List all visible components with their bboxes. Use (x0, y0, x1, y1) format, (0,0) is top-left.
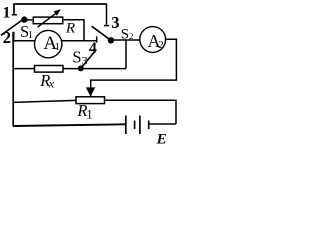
wire top bus from contact 1 to contact 3 (14, 4, 107, 15)
resistor Rx body (35, 66, 64, 73)
contact 2 bar (12, 32, 14, 42)
battery E cell plate short 1 (134, 121, 136, 130)
svg-text:1: 1 (3, 5, 11, 22)
ammeter A2 (140, 27, 166, 53)
wire slider bus from arrow to right rail (91, 79, 177, 96)
switch S3 pivot dot (78, 65, 84, 71)
wire junction down from A2 branch (125, 40, 127, 69)
switch S1 pivot dot (21, 16, 27, 22)
wire R1 row left (13, 100, 76, 102)
rheostat R body (33, 17, 62, 24)
battery E cell plate long 1 (125, 116, 127, 135)
wire battery to right rail (150, 123, 177, 125)
contact 3 tick (104, 25, 109, 27)
battery E cell plate long 2 (139, 116, 141, 135)
wire bottom bus left (13, 124, 126, 126)
rheostat R arrow (38, 13, 57, 27)
switch S2 pivot dot (108, 37, 114, 43)
wire A2 to right rail down (165, 39, 176, 80)
slider arrow head onto R1 (86, 87, 96, 96)
switch S3 lever (81, 51, 96, 68)
wire R1 right to battery right rail (105, 100, 177, 124)
wire S2 dot to ammeter A2 (113, 39, 140, 41)
battery E cell plate short 2 (148, 121, 150, 130)
switch S2 lever (92, 26, 111, 40)
contact 4 bar (96, 36, 98, 42)
contact 1 tick (12, 14, 17, 16)
resistor R1 body (76, 97, 105, 104)
wire R to corner stub (63, 20, 84, 41)
switch S1 lever (1, 20, 23, 36)
contact 3 stub (106, 4, 108, 25)
svg-text:E: E (156, 131, 167, 147)
svg-text:3: 3 (111, 13, 119, 32)
svg-text:R: R (65, 20, 75, 36)
wire left vertical rail (12, 41, 14, 127)
wire Rx row left (13, 68, 35, 70)
ammeter A1 (35, 30, 62, 57)
wire middle branch contact2 to contact4 (13, 40, 97, 42)
wire S1 dot to rheostat R (27, 19, 34, 21)
wire Rx row right to junction (63, 68, 126, 70)
